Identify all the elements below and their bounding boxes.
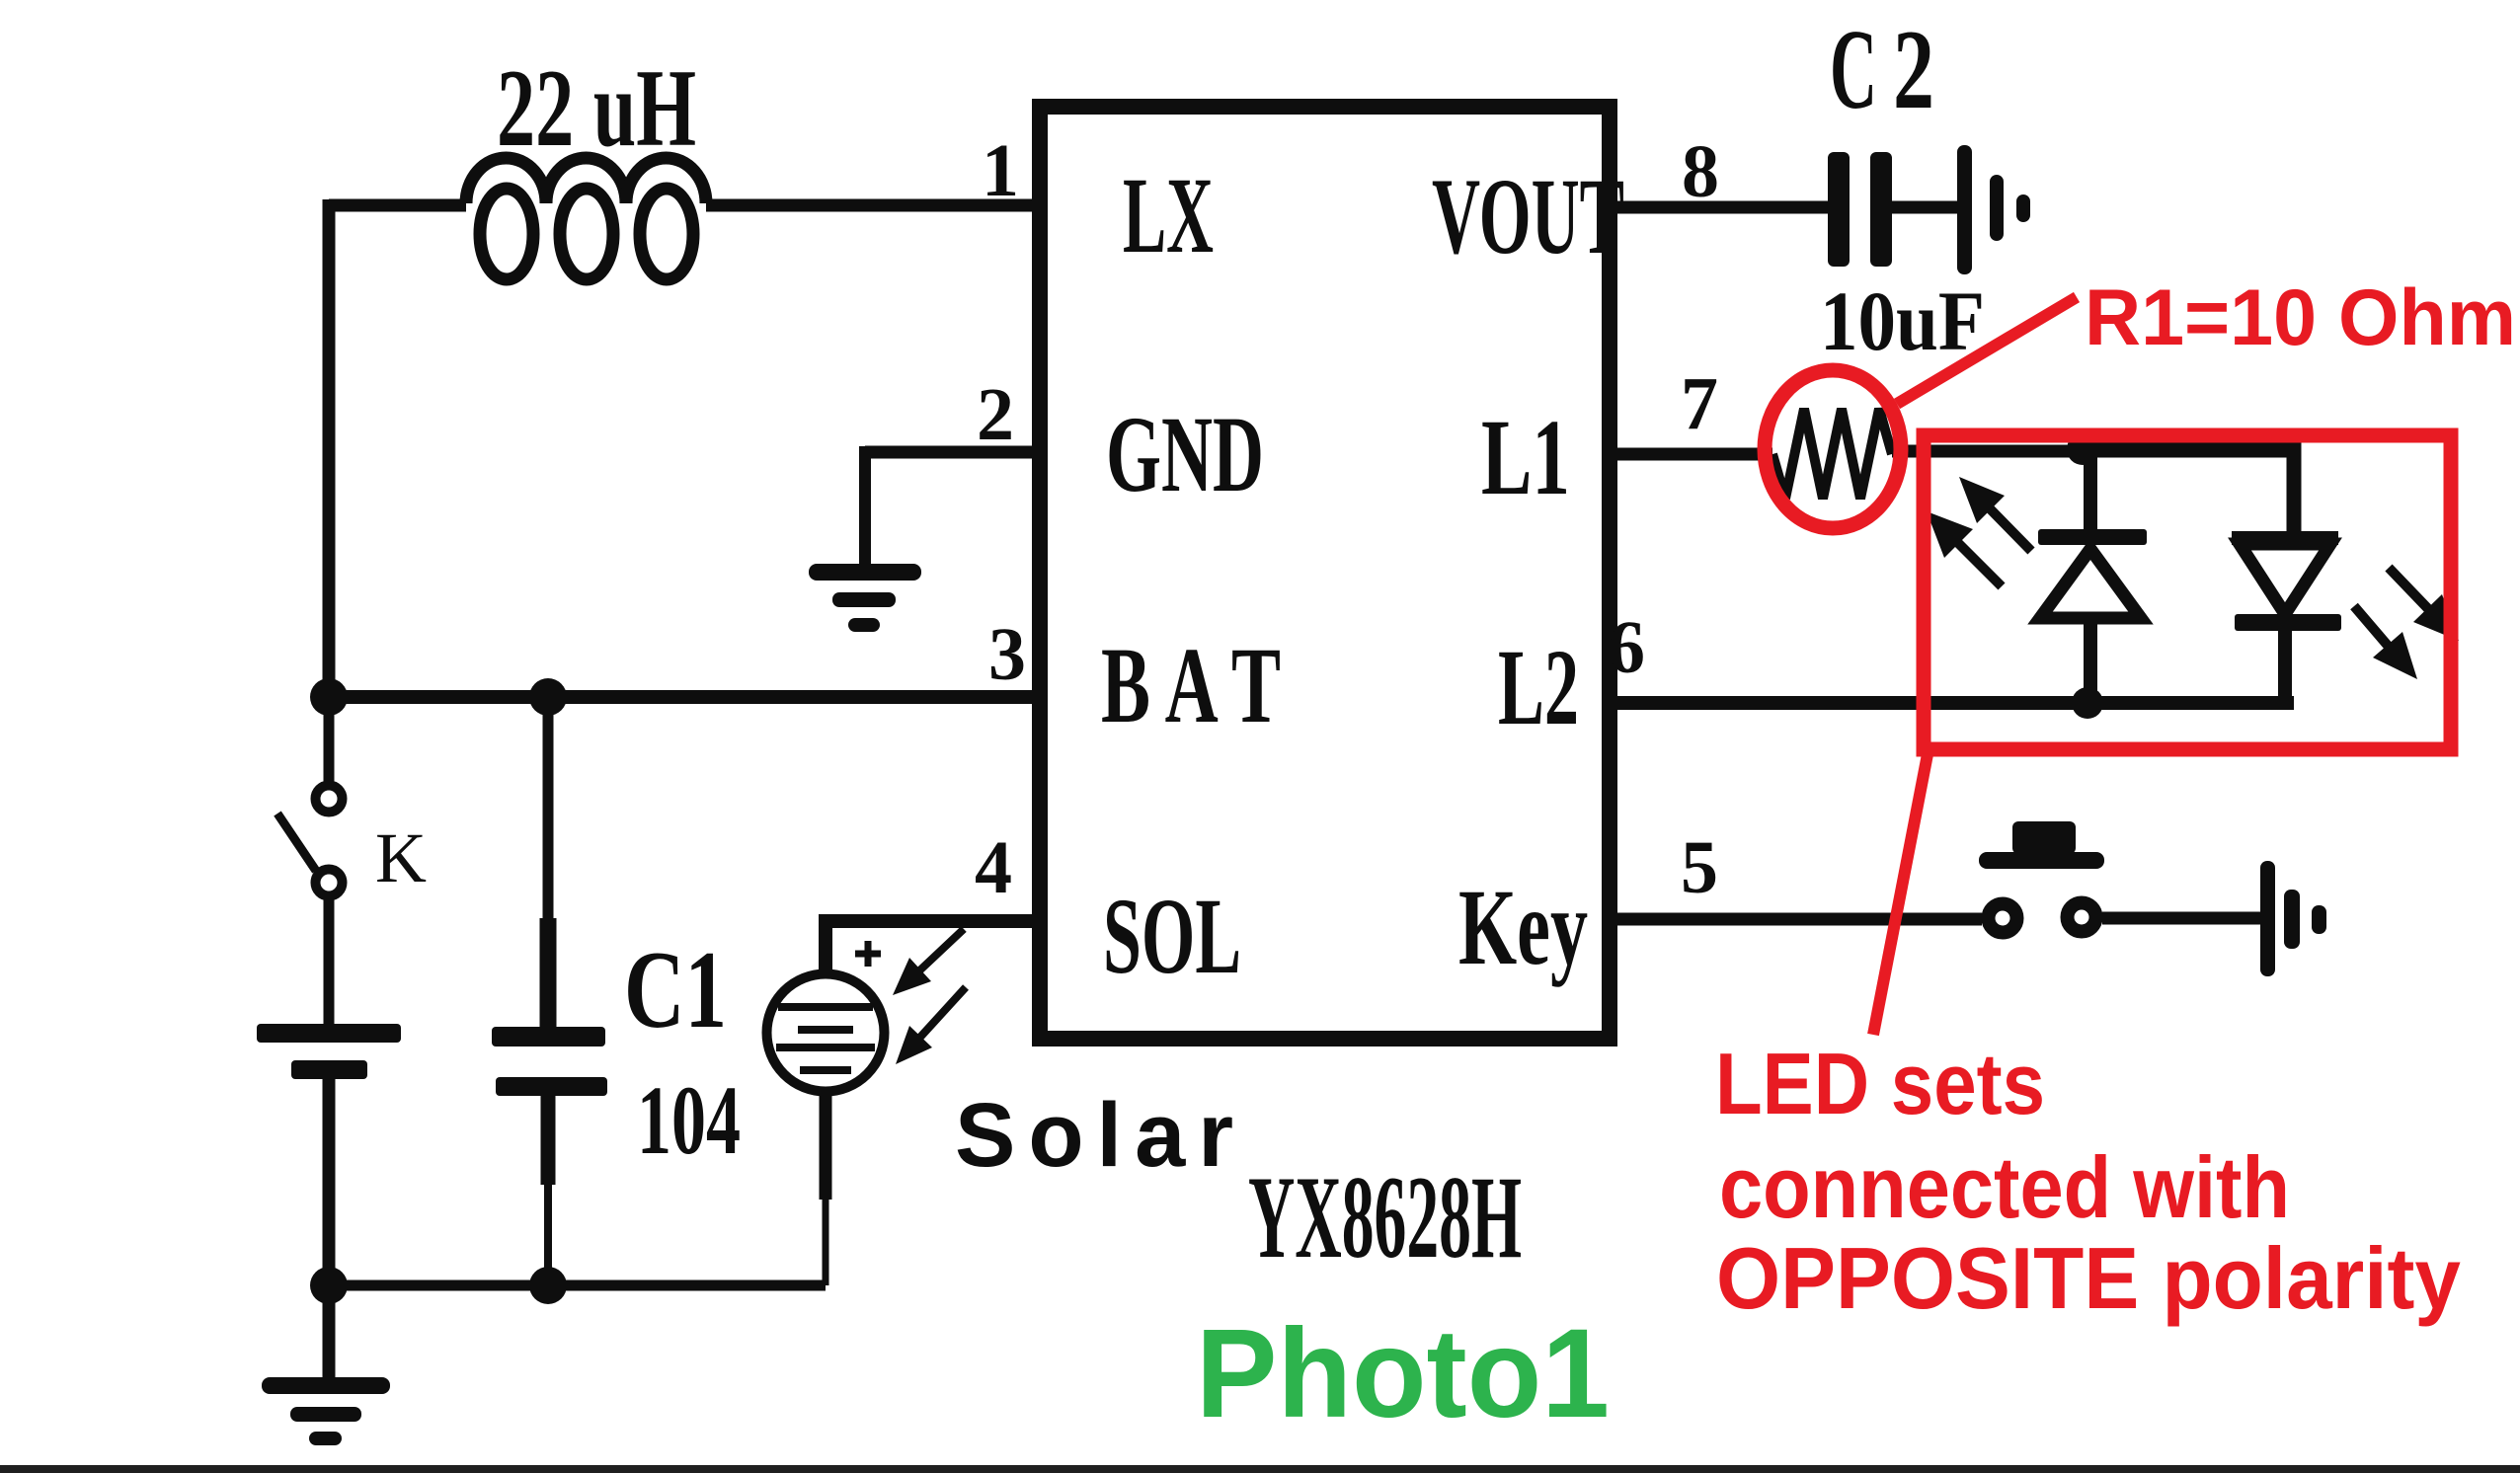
svg-text:Solar: Solar xyxy=(955,1085,1246,1186)
svg-text:8: 8 xyxy=(1682,130,1719,213)
svg-text:6: 6 xyxy=(1608,606,1645,689)
svg-text:5: 5 xyxy=(1681,826,1718,909)
svg-text:C1: C1 xyxy=(624,929,727,1051)
svg-text:2: 2 xyxy=(1893,7,1934,133)
svg-text:SOL: SOL xyxy=(1103,876,1241,996)
svg-text:LED sets: LED sets xyxy=(1715,1035,2045,1132)
svg-text:104: 104 xyxy=(637,1065,741,1175)
svg-text:B A T: B A T xyxy=(1101,625,1281,745)
svg-text:L2: L2 xyxy=(1498,627,1579,747)
svg-text:Key: Key xyxy=(1458,867,1588,987)
svg-text:VOUT: VOUT xyxy=(1432,156,1624,276)
svg-text:4: 4 xyxy=(975,826,1012,909)
svg-text:OPPOSITE polarity: OPPOSITE polarity xyxy=(1716,1229,2461,1327)
svg-text:Photo1: Photo1 xyxy=(1196,1303,1610,1444)
svg-text:YX8628H: YX8628H xyxy=(1248,1151,1522,1282)
svg-text:L1: L1 xyxy=(1481,397,1570,517)
svg-text:connected with: connected with xyxy=(1719,1138,2290,1236)
svg-text:2: 2 xyxy=(977,373,1014,456)
svg-text:C: C xyxy=(1830,7,1877,133)
svg-text:3: 3 xyxy=(988,613,1026,696)
svg-text:10uF: 10uF xyxy=(1820,273,1985,368)
svg-text:R1=10 Ohm: R1=10 Ohm xyxy=(2085,273,2516,362)
svg-text:LX: LX xyxy=(1123,155,1214,275)
svg-text:GND: GND xyxy=(1106,394,1264,514)
svg-text:22 uH: 22 uH xyxy=(497,47,696,170)
svg-text:7: 7 xyxy=(1681,362,1718,445)
svg-text:K: K xyxy=(375,818,427,897)
svg-text:1: 1 xyxy=(982,129,1019,212)
